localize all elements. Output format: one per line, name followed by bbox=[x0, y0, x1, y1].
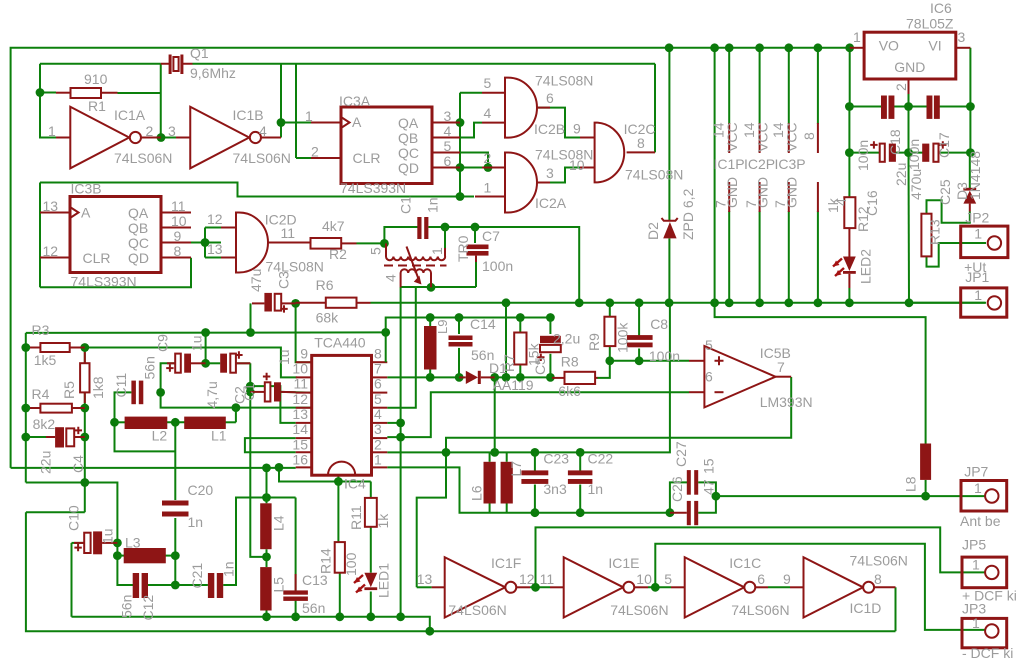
junction rail2 bbox=[845, 148, 854, 157]
junction bbox=[277, 118, 286, 127]
svg-text:4: 4 bbox=[374, 406, 382, 422]
svg-text:2: 2 bbox=[484, 150, 492, 166]
wire C9 left to C11 right column bbox=[161, 363, 312, 407]
svg-text:1u: 1u bbox=[189, 335, 205, 351]
svg-text:L6: L6 bbox=[469, 485, 485, 501]
svg-text:1u: 1u bbox=[100, 528, 116, 544]
svg-text:3: 3 bbox=[958, 29, 966, 45]
labels R2 R6 C3 bbox=[248, 218, 347, 326]
svg-text:R11: R11 bbox=[348, 505, 364, 530]
svg-text:IC3B: IC3B bbox=[71, 181, 102, 197]
wire net IC3B clock top route bbox=[40, 183, 474, 197]
svg-text:4k7: 4k7 bbox=[322, 218, 345, 234]
connector JP1 bbox=[961, 288, 1007, 317]
svg-text:LED2: LED2 bbox=[858, 249, 874, 284]
svg-text:JP5: JP5 bbox=[962, 537, 986, 553]
junction bbox=[36, 88, 45, 97]
svg-text:R8: R8 bbox=[561, 354, 579, 370]
junction pin13 route bbox=[246, 382, 255, 391]
wire L7 stubs bbox=[506, 452, 508, 461]
svg-text:9,6Mhz: 9,6Mhz bbox=[190, 65, 236, 81]
labels filter block bbox=[469, 441, 717, 502]
svg-text:IC3A: IC3A bbox=[339, 93, 371, 109]
wire R1 right to IC1A out column bbox=[118, 92, 161, 94]
wire y332 line bbox=[26, 331, 386, 334]
junction bbox=[246, 328, 255, 337]
svg-text:QB: QB bbox=[398, 130, 418, 146]
svg-text:IC1F: IC1F bbox=[491, 555, 521, 571]
svg-text:10: 10 bbox=[636, 571, 652, 587]
capacitor C16 bbox=[870, 141, 896, 162]
svg-text:6: 6 bbox=[757, 571, 765, 587]
wire C1b right to pin11 bbox=[281, 391, 312, 394]
svg-text:L3: L3 bbox=[125, 535, 141, 551]
wire IC5B output loop bbox=[417, 377, 792, 587]
svg-text:C4: C4 bbox=[70, 455, 86, 473]
capacitor C10 bbox=[74, 531, 117, 554]
junction R4 right bbox=[80, 404, 89, 413]
svg-text:100: 100 bbox=[343, 552, 359, 576]
junction C3 right bbox=[291, 299, 300, 308]
svg-text:A: A bbox=[352, 114, 362, 130]
junction bbox=[784, 298, 793, 307]
junction bar top bbox=[426, 313, 435, 322]
wire IC2C out vertical bbox=[654, 64, 656, 153]
svg-text:C9: C9 bbox=[155, 334, 171, 352]
wire C23 stubs bbox=[534, 452, 536, 471]
junction C4 right bbox=[80, 433, 89, 442]
svg-text:VCC: VCC bbox=[784, 122, 800, 152]
wire L row bbox=[115, 421, 128, 423]
labels IC3A bbox=[305, 93, 452, 196]
wire y360.8 to IC5B plus bbox=[610, 360, 689, 362]
wire R4 left stub bbox=[26, 407, 44, 409]
svg-text:13: 13 bbox=[207, 241, 223, 257]
junction bbox=[471, 223, 480, 232]
and-gate IC2B bbox=[482, 78, 550, 138]
capacitor C18 bbox=[881, 96, 894, 119]
junction C5 top bbox=[546, 313, 555, 322]
junction bbox=[784, 43, 793, 52]
junction bbox=[201, 328, 210, 337]
svg-text:6: 6 bbox=[444, 153, 452, 169]
wire C21 right up loop bbox=[223, 498, 295, 586]
svg-text:8: 8 bbox=[874, 571, 882, 587]
svg-text:8: 8 bbox=[174, 243, 182, 259]
resistor R6 bbox=[296, 298, 371, 308]
junction TR sec right bbox=[427, 283, 436, 292]
wire IC4 up to box bbox=[337, 475, 339, 481]
junction C4 left bbox=[21, 433, 30, 442]
inductor L9 bar bbox=[424, 326, 437, 370]
svg-text:1: 1 bbox=[48, 123, 56, 139]
svg-text:100n: 100n bbox=[649, 348, 680, 364]
power IC1P column bbox=[728, 48, 730, 124]
svg-text:C20: C20 bbox=[188, 482, 214, 498]
svg-text:C5: C5 bbox=[532, 357, 548, 375]
wire JP3 line bbox=[655, 544, 986, 630]
resistor R5 bbox=[80, 352, 89, 403]
junction line A/B jog bbox=[425, 627, 434, 636]
crystal Q1 bbox=[161, 55, 193, 75]
labels power bus bbox=[645, 122, 849, 240]
svg-text:R12: R12 bbox=[855, 206, 871, 232]
svg-text:2: 2 bbox=[311, 144, 319, 160]
wire x494.7 drop from pin7 line bbox=[494, 377, 496, 452]
svg-text:IC5B: IC5B bbox=[760, 345, 791, 361]
junction bbox=[904, 148, 913, 157]
wire GND rail y302.8 bbox=[371, 302, 986, 304]
svg-text:13: 13 bbox=[43, 198, 59, 214]
svg-text:L9: L9 bbox=[435, 320, 450, 334]
labels connectors right bbox=[903, 210, 1017, 662]
wire C9 right to C2 left bbox=[206, 362, 221, 364]
capacitor C20 bbox=[162, 501, 189, 517]
labels top-left oscillator bbox=[48, 45, 291, 166]
svg-text:C11: C11 bbox=[113, 373, 129, 398]
junction R3 right bbox=[80, 343, 89, 352]
svg-text:QC: QC bbox=[128, 235, 149, 251]
junction bbox=[755, 43, 764, 52]
wire IC1F out to IC1E in bbox=[530, 586, 550, 588]
svg-text:9: 9 bbox=[783, 571, 791, 587]
junction bbox=[380, 239, 389, 248]
wire C22 stubs bbox=[579, 452, 581, 471]
wire QB to IC2B pin4 bbox=[460, 123, 482, 138]
voltage regulator IC6 78L05 bbox=[850, 32, 971, 94]
wire vertical x460 gates column bbox=[459, 93, 461, 197]
svg-text:C27: C27 bbox=[673, 441, 689, 467]
power pins IC3P bbox=[788, 123, 790, 212]
power pins IC5P bbox=[817, 123, 819, 212]
svg-text:C7: C7 bbox=[482, 228, 500, 244]
and-gate IC2D bbox=[221, 213, 311, 273]
connector JP2 bbox=[961, 226, 1008, 258]
junction bbox=[651, 583, 660, 592]
inductor L2 bbox=[125, 417, 168, 429]
svg-text:7: 7 bbox=[374, 361, 382, 377]
wire QC9 to IC2D bbox=[191, 242, 221, 244]
wire JP1 stub bbox=[909, 302, 986, 304]
wire IC2B out to IC2C pin9 bbox=[537, 108, 580, 138]
svg-text:5: 5 bbox=[705, 337, 713, 353]
svg-text:14: 14 bbox=[292, 421, 308, 437]
wire C20 column bbox=[174, 422, 176, 500]
wire TCA pin8 up bbox=[385, 332, 387, 362]
svg-text:100k: 100k bbox=[615, 322, 631, 353]
svg-text:GND: GND bbox=[784, 177, 800, 208]
svg-text:ZPD 6,2: ZPD 6,2 bbox=[680, 188, 696, 240]
transformer TR primary bbox=[386, 243, 445, 260]
svg-text:L5: L5 bbox=[271, 577, 287, 593]
svg-text:TCA440: TCA440 bbox=[314, 335, 366, 351]
svg-text:IC4: IC4 bbox=[344, 476, 366, 492]
junction C23 top bbox=[531, 448, 540, 457]
resistor R14 bbox=[335, 542, 345, 573]
svg-text:JP7: JP7 bbox=[964, 464, 988, 480]
wire JP7 antenna line bbox=[716, 495, 985, 497]
junction C26 left bbox=[666, 508, 675, 517]
resistor R7 bbox=[514, 333, 526, 365]
junction pin2 jog bbox=[442, 448, 451, 457]
junction C9 right bbox=[201, 359, 210, 368]
svg-text:8: 8 bbox=[374, 346, 382, 362]
capacitor C25 bbox=[922, 141, 946, 162]
svg-text:6: 6 bbox=[374, 376, 382, 392]
svg-text:C10: C10 bbox=[66, 505, 82, 531]
wire IC1F input bbox=[417, 586, 432, 588]
junction bbox=[490, 373, 499, 382]
wire TCA pin4 column bbox=[400, 287, 402, 617]
svg-text:3: 3 bbox=[374, 421, 382, 437]
wire C9 column from y332 bbox=[205, 333, 207, 364]
wire L8 top feed bbox=[715, 303, 926, 444]
capacitor C11 bbox=[131, 381, 143, 405]
svg-text:R1: R1 bbox=[88, 98, 106, 114]
junction C1b left bbox=[246, 388, 255, 397]
labels IC3B bbox=[43, 181, 187, 290]
junction pin3 bbox=[396, 433, 405, 442]
svg-text:11: 11 bbox=[281, 225, 296, 241]
transformer TR core bbox=[384, 265, 447, 267]
junction QA tap bbox=[456, 118, 465, 127]
junction L5 bottom bbox=[262, 612, 271, 621]
wire IC3B QD to CLR feedback bbox=[40, 258, 191, 288]
svg-text:1N4148: 1N4148 bbox=[967, 151, 983, 200]
svg-text:R14: R14 bbox=[318, 548, 334, 574]
svg-text:5: 5 bbox=[664, 571, 672, 587]
labels left-bottom passives bbox=[66, 482, 392, 621]
junction L2 left bbox=[110, 418, 119, 427]
svg-text:78L05Z: 78L05Z bbox=[906, 16, 954, 32]
wire x25.9 lower vertical to line B bbox=[26, 512, 896, 631]
svg-text:9: 9 bbox=[573, 121, 581, 137]
svg-text:10: 10 bbox=[292, 361, 308, 377]
junction bbox=[575, 298, 584, 307]
svg-text:1: 1 bbox=[974, 287, 982, 303]
labels TR C1 C7 bbox=[368, 196, 514, 282]
wire C8 column bbox=[638, 303, 640, 336]
and-gate IC2C bbox=[580, 123, 655, 183]
junction bbox=[710, 298, 719, 307]
svg-text:1n: 1n bbox=[188, 514, 204, 530]
svg-text:IC2B: IC2B bbox=[534, 121, 565, 137]
junction pin4 bbox=[396, 419, 405, 428]
wire IC1E out to IC1C in bbox=[648, 586, 671, 588]
svg-text:C26: C26 bbox=[669, 476, 685, 502]
junction bbox=[516, 373, 525, 382]
junction pin1 line bbox=[456, 192, 465, 201]
inductor L5 bbox=[260, 567, 271, 610]
svg-text:12: 12 bbox=[292, 391, 308, 407]
power pins IC1P bbox=[728, 123, 730, 212]
svg-text:8k2: 8k2 bbox=[33, 416, 56, 432]
svg-text:1: 1 bbox=[484, 180, 492, 196]
junction C10 right bbox=[113, 539, 122, 548]
labels TCA440 bbox=[292, 335, 382, 492]
junction L2/L1 mid bbox=[171, 418, 180, 427]
wire IC6 VI column bbox=[969, 48, 971, 107]
junction R4 left bbox=[21, 404, 30, 413]
svg-text:1: 1 bbox=[853, 29, 861, 45]
capacitor C23 bbox=[521, 470, 548, 484]
svg-text:56n: 56n bbox=[119, 595, 135, 618]
junction bbox=[441, 223, 450, 232]
wire R1/IC1A input column bbox=[40, 64, 56, 138]
inductor L4 bbox=[260, 503, 271, 549]
labels C9 C11 C2 C1 bbox=[113, 334, 292, 444]
inverter IC1F bbox=[432, 557, 530, 617]
svg-text:C8: C8 bbox=[650, 316, 668, 332]
junction bbox=[710, 43, 719, 52]
junction bbox=[605, 298, 614, 307]
svg-text:L1: L1 bbox=[211, 428, 227, 444]
wire C12 to C21 bbox=[148, 584, 208, 586]
svg-text:C22: C22 bbox=[588, 451, 614, 467]
wire LED1 bottom bbox=[370, 592, 372, 617]
svg-text:1n: 1n bbox=[588, 481, 604, 497]
svg-text:3: 3 bbox=[546, 165, 554, 181]
capacitor C9 bbox=[166, 354, 205, 373]
inductor L1 bbox=[184, 417, 226, 429]
wire D2 column bbox=[668, 48, 670, 220]
wire x506 drop bbox=[505, 303, 507, 378]
connector JP7 bbox=[961, 481, 1007, 512]
svg-text:2: 2 bbox=[893, 83, 909, 91]
junction L3 right bbox=[171, 551, 180, 560]
junction bbox=[725, 43, 734, 52]
wire L4 stubs bbox=[266, 498, 268, 504]
wire D3 column bbox=[969, 153, 971, 189]
labels bottom inverter chain bbox=[417, 553, 908, 619]
capacitor C14 bbox=[449, 336, 473, 347]
wire TCA pin5 column bbox=[387, 287, 416, 408]
svg-text:4,7u: 4,7u bbox=[204, 381, 220, 408]
capacitor C7 bbox=[467, 245, 489, 263]
svg-text:R2: R2 bbox=[329, 246, 347, 262]
junction bbox=[905, 298, 914, 307]
svg-text:IC1P: IC1P bbox=[714, 156, 745, 172]
capacitor C13 bbox=[283, 574, 308, 601]
svg-text:IC1E: IC1E bbox=[608, 555, 639, 571]
svg-text:AA119: AA119 bbox=[493, 377, 534, 393]
svg-text:13: 13 bbox=[417, 571, 433, 587]
transformer TR secondary bbox=[401, 247, 431, 288]
svg-text:47u: 47u bbox=[248, 269, 264, 292]
power IC5P column bbox=[817, 48, 819, 124]
capacitor C3 bbox=[252, 293, 296, 313]
wire R13 bottom to JP2 bbox=[927, 243, 987, 267]
svg-text:3: 3 bbox=[168, 123, 176, 139]
wire L4 top to y467 bbox=[266, 468, 268, 498]
svg-text:VI: VI bbox=[928, 38, 941, 54]
svg-text:LED1: LED1 bbox=[376, 563, 392, 598]
resistor R8 bbox=[552, 372, 598, 384]
wire IC3A pin1 line bbox=[281, 122, 311, 124]
junction QD tap bbox=[456, 163, 465, 172]
svg-text:74LS08N: 74LS08N bbox=[625, 167, 683, 183]
svg-text:22u: 22u bbox=[38, 451, 54, 474]
svg-text:11: 11 bbox=[171, 198, 186, 214]
svg-text:74LS08N: 74LS08N bbox=[535, 147, 593, 163]
resistor R4 bbox=[30, 404, 85, 413]
svg-text:CLR: CLR bbox=[353, 150, 381, 166]
svg-text:C1: C1 bbox=[241, 383, 257, 401]
svg-text:C1: C1 bbox=[398, 196, 414, 214]
wire R2 right to TR/C1 node bbox=[357, 242, 385, 244]
svg-text:QC: QC bbox=[398, 145, 419, 161]
diode D3 1N4148 bbox=[963, 188, 976, 212]
junction top rail bbox=[665, 43, 674, 52]
junction bbox=[814, 43, 823, 52]
wire L3 row bbox=[117, 555, 126, 557]
junction L3 left bbox=[113, 551, 122, 560]
svg-text:GND: GND bbox=[894, 59, 925, 75]
svg-text:A: A bbox=[81, 205, 91, 221]
wire caps rail1 bbox=[849, 106, 882, 108]
junction x494.7 bbox=[490, 448, 499, 457]
svg-text:74LS06N: 74LS06N bbox=[610, 602, 668, 618]
resistor R3 bbox=[30, 343, 85, 352]
wire y512 left link bbox=[26, 511, 85, 513]
LED LED1 bbox=[354, 573, 377, 593]
wire C10 right column bbox=[117, 543, 133, 585]
svg-text:L2: L2 bbox=[152, 428, 168, 444]
capacitor C1 bbox=[417, 217, 428, 239]
junction C13 bottom bbox=[291, 612, 300, 621]
svg-text:2,2u: 2,2u bbox=[553, 331, 580, 347]
svg-text:VO: VO bbox=[879, 38, 899, 54]
svg-text:74LS393N: 74LS393N bbox=[71, 274, 137, 290]
junction bbox=[635, 298, 644, 307]
wire C26 right bbox=[698, 496, 716, 513]
junction bbox=[80, 478, 89, 487]
junction bbox=[665, 298, 674, 307]
wire L5 stubs bbox=[266, 557, 268, 567]
wire IC1C out to IC1D in bbox=[768, 586, 790, 588]
wire line A bbox=[72, 617, 430, 631]
svg-text:IC2P: IC2P bbox=[744, 156, 775, 172]
wire C27 left bbox=[670, 482, 687, 512]
junction bbox=[966, 148, 975, 157]
wire R12/LED2 column bbox=[849, 48, 851, 107]
wire IC1A out to IC1B in bbox=[161, 137, 191, 139]
junction C14 top bbox=[455, 313, 464, 322]
junction C22 bottom bbox=[576, 508, 585, 517]
wire R11 column bbox=[370, 482, 372, 498]
svg-text:1: 1 bbox=[305, 108, 313, 124]
svg-text:QA: QA bbox=[398, 115, 419, 131]
svg-text:IC3P: IC3P bbox=[775, 156, 806, 172]
junction bbox=[755, 298, 764, 307]
capacitor C5 2u2 bbox=[537, 336, 561, 361]
connector JP3 bbox=[962, 618, 1007, 647]
svg-text:IC1B: IC1B bbox=[233, 107, 264, 123]
wire C7 bottom bbox=[475, 257, 477, 287]
svg-text:VCC: VCC bbox=[724, 122, 740, 152]
junction bbox=[502, 373, 511, 382]
wire C2 right stub bbox=[236, 362, 250, 364]
svg-text:L7: L7 bbox=[508, 461, 524, 477]
wire TCA pin1 to filter bottom rail bbox=[387, 467, 670, 512]
svg-text:1k: 1k bbox=[375, 513, 391, 529]
svg-text:5: 5 bbox=[484, 75, 492, 91]
wire R3 right R5 column bbox=[84, 348, 86, 513]
wire C27 right to antenna node bbox=[698, 482, 716, 496]
svg-text:1: 1 bbox=[429, 247, 445, 255]
svg-text:56n: 56n bbox=[302, 600, 325, 616]
svg-text:LM393N: LM393N bbox=[760, 394, 813, 410]
